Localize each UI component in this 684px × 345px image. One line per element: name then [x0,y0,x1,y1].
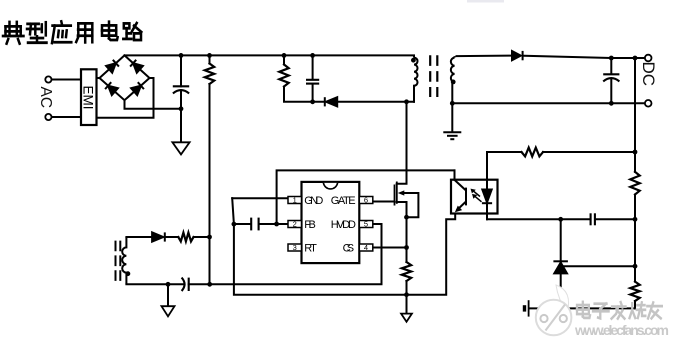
bridge diode bottom-left arm [108,86,118,95]
IC U1 notch [323,183,337,189]
char 典 [3,22,24,44]
title 典型应用电路 (hand drawn) [3,21,141,43]
wire HVDD pin5 lead down and left [189,224,382,284]
capacitor C3 output [603,74,619,81]
resistor R7 divider lower [630,282,639,301]
wire GND pin1 lead [232,197,288,199]
wire FB node up and over to opto collector [277,170,455,224]
wire secondary bottom rail [452,82,645,103]
IC U1 pin numbers [293,196,368,253]
ground G1 bulk cap [172,142,189,154]
wire snubber resistor top [283,55,285,64]
optocoupler U2 phototransistor [455,180,467,211]
wire bridge right corner down to EMI bottom [97,78,154,118]
svg-text:RT: RT [304,242,317,254]
MOSFET Q1 body arrow [398,190,405,195]
wire C1 bottom lead to ground [180,91,182,143]
svg-text:CS: CS [343,242,355,254]
transformer T2 aux winding [122,237,126,284]
resistor R6 aux series [178,233,193,242]
wire opto collector stub [454,170,456,179]
wm char 电 [577,302,590,318]
svg-text:GND: GND [304,195,323,207]
transformer T1 primary winding [414,55,418,85]
resistor R2 snubber [279,65,288,87]
ground G2 aux [162,306,175,316]
AC terminal top [45,76,51,82]
wire aux winding top line with D3 R6 [126,236,151,238]
DC terminal minus [645,100,652,107]
wire MOSFET source down to CS and gnd [397,202,407,262]
wire snubber bottom line with diode D1 [284,87,324,102]
wire lower feedback line left of C4 [487,218,590,220]
svg-text:6: 6 [364,196,368,205]
capacitor C6 fb pin [251,218,258,231]
wire TL431 cathode lead [560,219,562,261]
transformer T1 secondary winding [451,56,455,82]
wire C2 leads [312,55,314,79]
watermark logo circle [536,285,572,335]
char 型 [27,22,47,42]
optocoupler U2 LED [482,190,492,204]
MOSFET Q1 [395,182,397,206]
svg-text:1: 1 [293,196,297,205]
wire AC top lead [51,79,81,81]
svg-text:www.elecfans.com: www.elecfans.com [574,322,669,338]
wire lower feedback line right of C4 [595,218,635,220]
char 应 [52,21,71,43]
wire C3 output cap leads [610,58,612,74]
resistor R3 current sense [402,262,411,281]
svg-text:FB: FB [304,219,316,231]
resistor R5 divider upper [630,172,639,195]
wire MOSFET drain [397,102,407,184]
capacitor C5 hvdd polarized [182,278,189,291]
wire secondary top to diode D2 [457,55,512,58]
wire CS pin4 lead [373,247,407,249]
wire MOSFET body loop [403,193,418,217]
wm char 子 [593,304,609,319]
bridge diode bottom-right arm [131,86,141,95]
wire aux line left of C5 [126,283,184,285]
IC U1 pin6 box [359,197,373,204]
resistor R4 opto series [522,148,544,157]
svg-text:AC: AC [37,87,54,109]
wire bottom output gnd line [529,307,635,309]
ground G3 sense resistor [401,314,412,322]
capacitor C1 bulk [173,86,189,93]
wire opto emitter to primary gnd line [234,214,455,295]
IC U1 pin3 box [288,244,302,251]
svg-text:EMI: EMI [81,86,96,110]
svg-text:5: 5 [364,220,368,229]
wm char 发 [612,302,626,318]
wire AC bottom lead [51,116,81,118]
transformer T2 aux phase dot [126,271,131,276]
transformer T2 aux core [116,241,121,281]
optocoupler U2 box [451,180,498,214]
watermark text 电子发烧友 (hand drawn grey) [577,302,662,319]
transformer T1 secondary phase dot [451,80,456,85]
bridge diode upper-right arm [133,63,143,72]
svg-text:DC: DC [639,62,658,87]
wire GATE pin6 lead [373,201,395,203]
transformer T1 core [430,55,437,97]
char 路 [123,23,141,40]
wire FB cap to GND pin slant [232,198,234,224]
AC terminal bottom [45,114,51,120]
IC U1 pin1 box [288,197,302,204]
svg-text:GATE: GATE [331,195,356,207]
bridge rectifier BR1 [100,55,150,100]
wire primary winding bottom return [413,86,415,102]
diode D1 snubber (points left) [325,97,337,106]
svg-text:4: 4 [364,243,368,252]
wire TL431 ref line [564,265,636,267]
char 电 [102,22,118,40]
wire D1 to drain junction and primary bottom [337,101,414,103]
diode D3 aux (points right) [152,232,165,241]
optocoupler U2 light arrows [473,190,482,202]
wire FB pin2 lead [259,223,288,225]
wire D2 to DC+ [524,56,644,58]
svg-text:2: 2 [293,220,297,229]
wire aux ground stub [167,284,169,306]
capacitor C4 feedback [591,213,595,225]
optocoupler U2 emitter arrow [455,206,462,213]
DC terminal plus [645,55,652,62]
IC U1 pin labels [304,195,356,255]
IC U1 pin5 box [359,221,373,228]
bridge diode lower-left arm [106,63,116,72]
battery style terminal bottom left of watermark [525,300,529,316]
diode D4 shunt regulator (points up) [553,261,568,273]
wire opto LED vertical [486,152,488,190]
wm char 友 [647,302,662,318]
EMI filter block [81,69,97,125]
faint scan mark top [467,0,504,3]
wire TL431 anode lead [560,273,562,308]
wm char 烧 [630,302,646,317]
char 用 [76,23,92,42]
svg-text:3: 3 [293,243,297,252]
resistor R1 startup [205,64,214,85]
ground G4 secondary earth [443,132,461,139]
wire top rail primary [125,54,415,56]
transformer T1 primary phase dot [411,58,416,63]
wire bridge bottom corner to C1 junction [125,100,182,109]
diode D2 output rectifier (points right) [512,51,523,60]
IC U1 pin4 box [359,244,373,251]
wire C1 top lead from rail [180,55,182,86]
IC U1 body [302,182,360,263]
IC U1 pin2 box [288,221,302,228]
wire upper feedback resistor line [487,151,522,153]
wire EMI to bridge left corner [97,77,100,79]
svg-text:HVDD: HVDD [331,219,356,231]
wire start resistor column [209,55,211,63]
wire secondary ground stub [451,103,453,131]
wire right feedback column [634,58,636,172]
capacitor C2 snubber [306,80,319,84]
